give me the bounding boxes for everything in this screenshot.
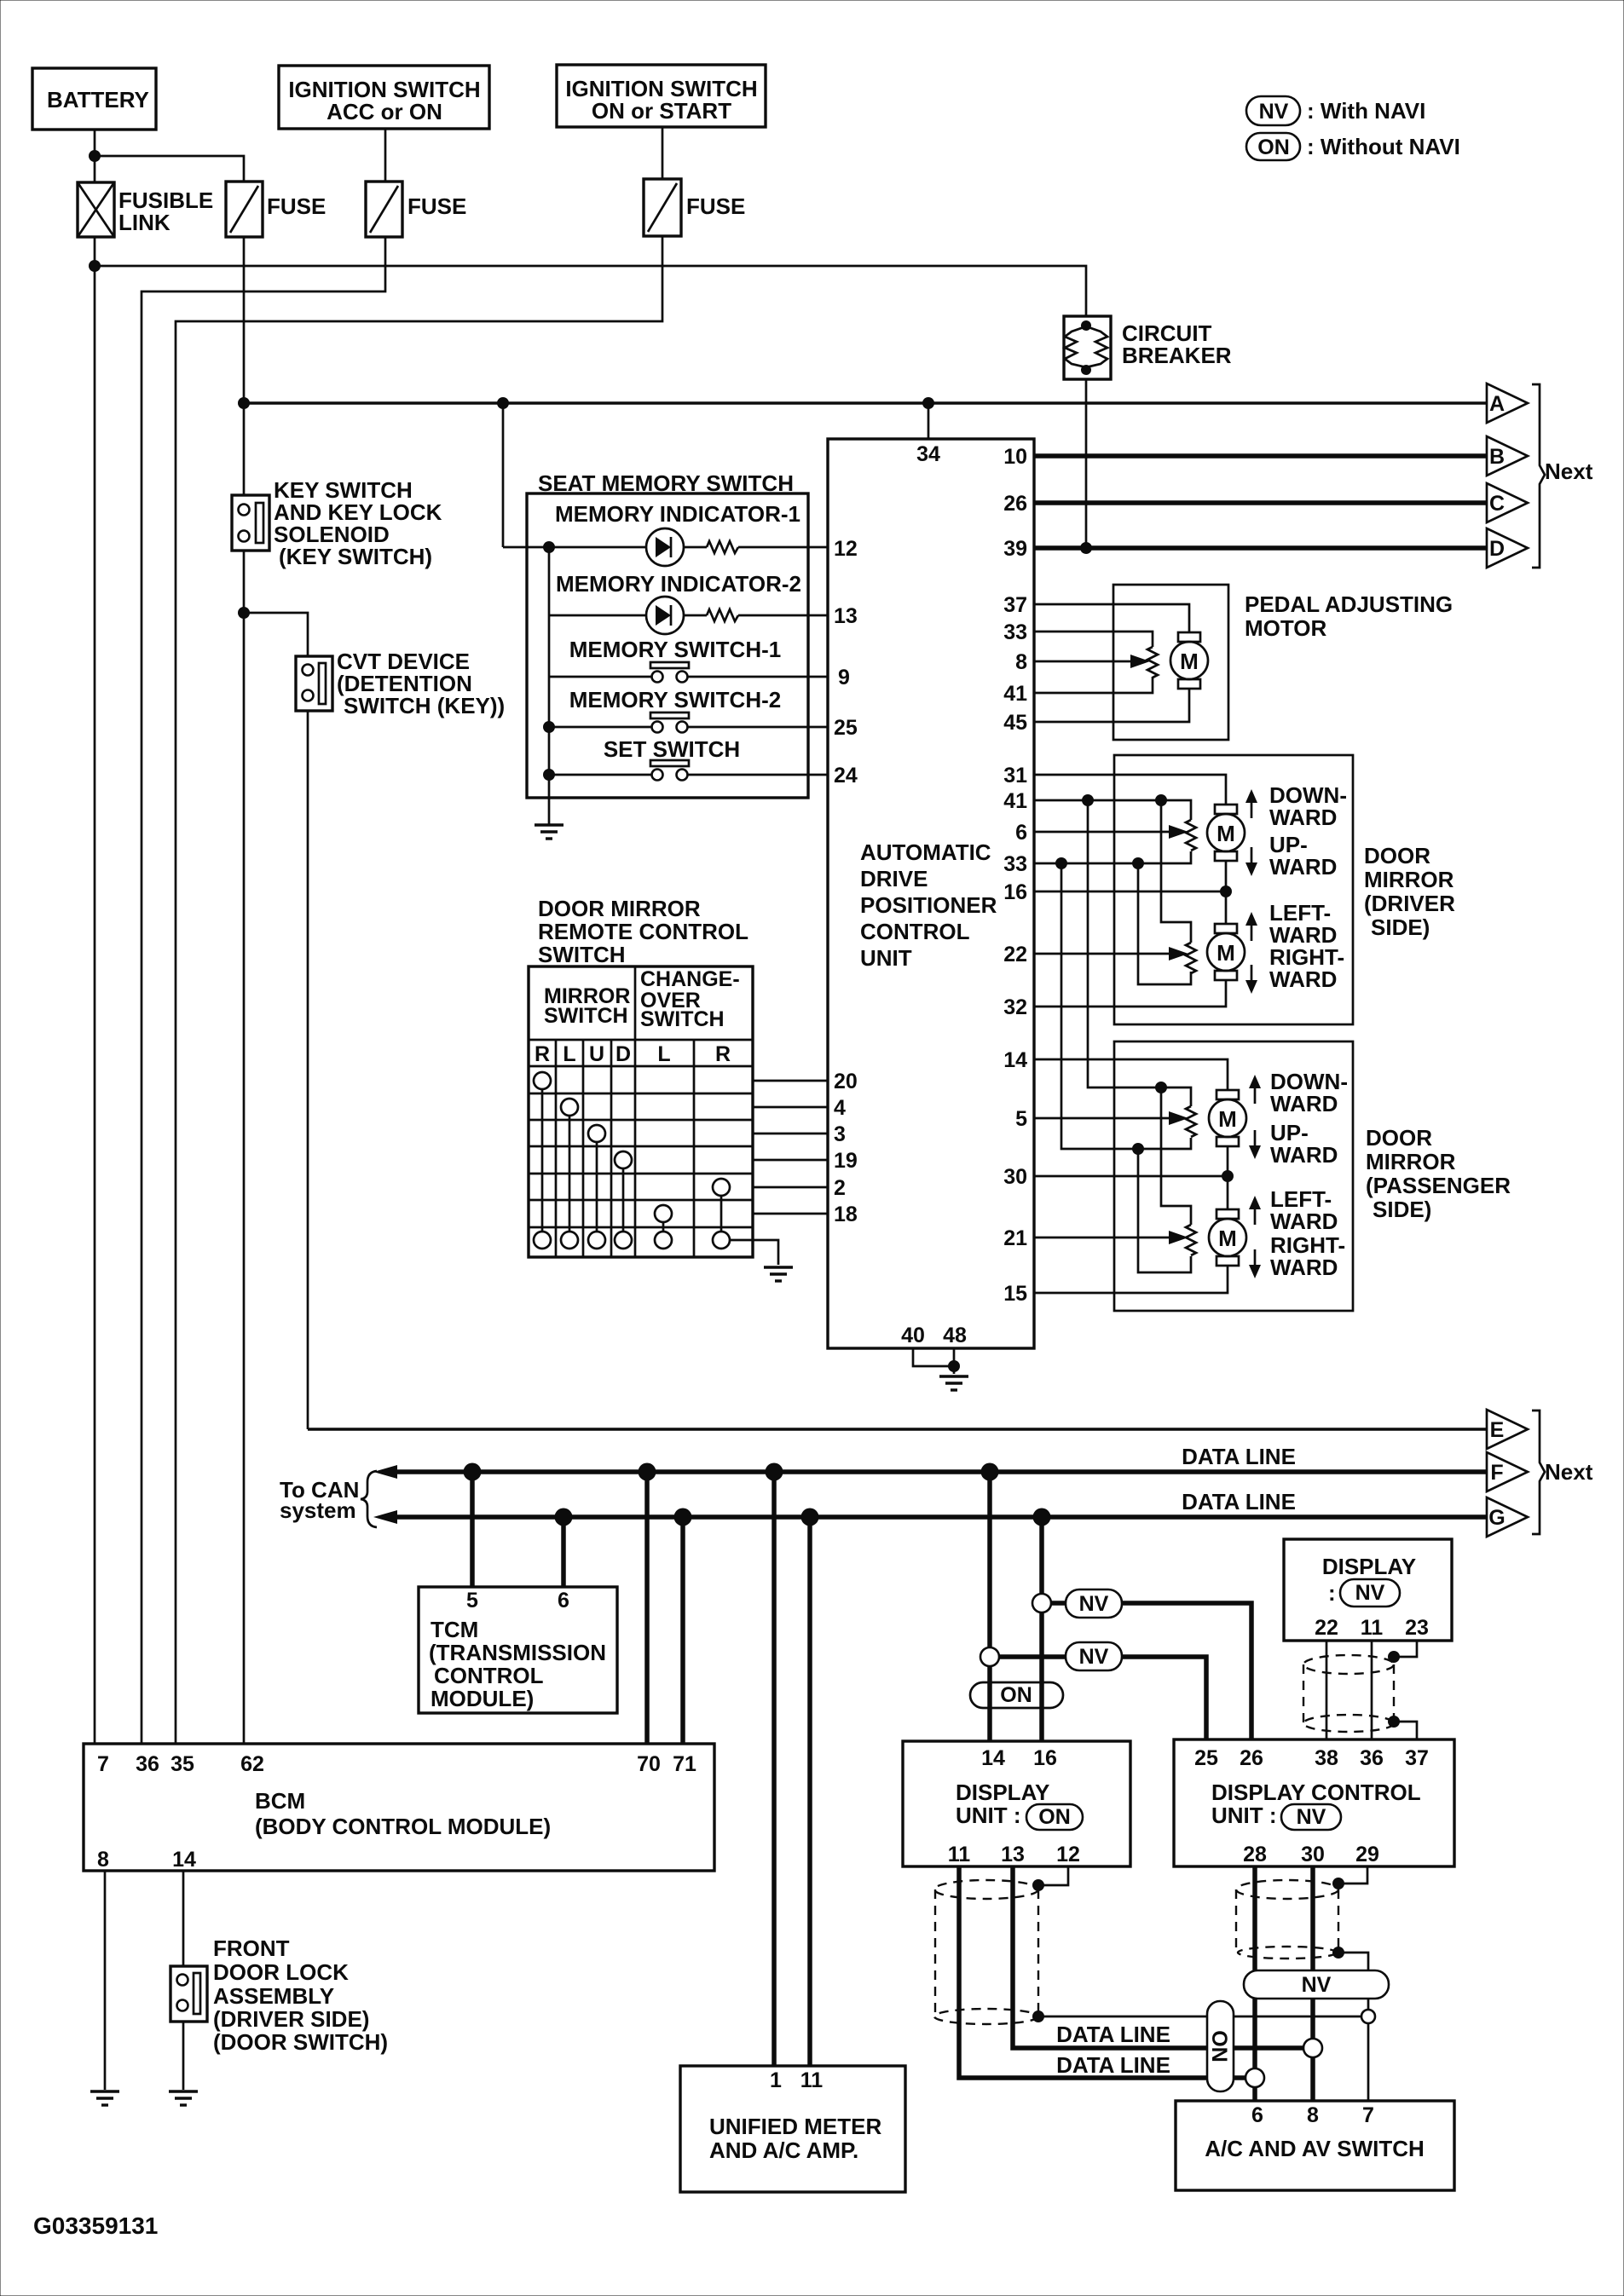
wire G to display unit pin 16 <box>1039 1517 1044 1741</box>
node G to meter 11 <box>801 1509 819 1526</box>
svg-text:UNIT :: UNIT : <box>1211 1803 1277 1828</box>
shield display cable <box>1303 1655 1394 1732</box>
node right shield bottom <box>1332 1947 1344 1959</box>
wire 41 rail to passenger sensor1 <box>1088 800 1191 1106</box>
wire pin 30 <box>1034 1175 1228 1178</box>
svg-text:M: M <box>1218 1226 1237 1251</box>
svg-text::: : <box>1328 1580 1336 1606</box>
ground control unit <box>939 1376 968 1390</box>
potentiometer passenger mirror vertical <box>1186 1106 1196 1137</box>
svg-text:M: M <box>1217 821 1235 846</box>
svg-text:WARD: WARD <box>1269 854 1337 880</box>
svg-text:L: L <box>657 1042 670 1066</box>
svg-text:L: L <box>563 1042 575 1066</box>
wire branch to CVT device <box>244 613 308 656</box>
node 33 branch b <box>1132 857 1144 869</box>
label upward passenger <box>1270 1120 1338 1168</box>
wire F to meter pin 1 <box>772 1472 777 2066</box>
wire BCM pin 8 to ground <box>104 1871 107 2090</box>
connector triangle G <box>1487 1497 1528 1537</box>
wire pin 4 stub <box>753 1106 828 1109</box>
contact R row1 <box>534 1072 551 1089</box>
bracket E-G Next <box>1532 1410 1593 1534</box>
connector triangle E <box>1487 1410 1528 1449</box>
svg-text:DOOR: DOOR <box>1364 843 1430 868</box>
contact U row3 <box>588 1125 605 1142</box>
wire col L <box>569 1116 571 1232</box>
svg-text:E: E <box>1490 1418 1505 1442</box>
wire pin 45 to pedal motor <box>1034 689 1189 722</box>
svg-text:MIRROR: MIRROR <box>1366 1149 1456 1174</box>
arrow driver downward <box>1245 789 1257 818</box>
svg-text:SIDE): SIDE) <box>1373 1197 1431 1222</box>
svg-text:5: 5 <box>466 1589 478 1612</box>
wire battery bus to circuit breaker <box>95 266 1086 316</box>
wire passenger motor2 to pin 15 <box>1034 1266 1228 1293</box>
svg-text:(PASSENGER: (PASSENGER <box>1366 1173 1511 1198</box>
svg-text:DRIVE: DRIVE <box>860 866 928 891</box>
node 30 junction <box>1222 1170 1234 1182</box>
svg-text:system: system <box>280 1497 356 1523</box>
wire G to BCM pin 71 <box>680 1517 685 1744</box>
svg-text:9: 9 <box>838 666 850 689</box>
node 41 branch b <box>1155 794 1167 806</box>
potentiometer driver mirror horizontal <box>1186 943 1196 973</box>
svg-text:ASSEMBLY: ASSEMBLY <box>213 1983 334 2009</box>
wire 33 rail to passenger sensor1 <box>1061 863 1191 1149</box>
wire col changeover L <box>662 1222 665 1232</box>
svg-text:36: 36 <box>136 1752 159 1776</box>
node ground join <box>948 1360 960 1372</box>
contact L row2 <box>561 1099 578 1116</box>
svg-text:SWITCH: SWITCH <box>538 942 626 967</box>
svg-text:(KEY SWITCH): (KEY SWITCH) <box>279 544 432 569</box>
svg-text:MOTOR: MOTOR <box>1245 615 1327 641</box>
svg-text:WARD: WARD <box>1269 966 1337 992</box>
wire B line pin 10 <box>1034 453 1487 459</box>
svg-text:15: 15 <box>1003 1282 1027 1306</box>
svg-text:SWITCH: SWITCH <box>544 1004 628 1028</box>
node left shield top <box>1032 1879 1044 1891</box>
svg-text:3: 3 <box>834 1122 846 1146</box>
svg-text:6: 6 <box>558 1589 569 1612</box>
fuse F3 <box>644 179 745 236</box>
wire 41 branch to passenger sensor2 <box>1161 1087 1191 1225</box>
ignition switch ACC or ON <box>279 66 489 129</box>
wire NV branch to DCU pin 25 <box>990 1657 1206 1739</box>
svg-text:M: M <box>1218 1106 1237 1132</box>
svg-text:BCM: BCM <box>255 1788 305 1814</box>
svg-text:MODULE): MODULE) <box>431 1686 534 1711</box>
svg-text:NV: NV <box>1297 1805 1326 1829</box>
set switch <box>549 760 828 781</box>
memory switch-2 <box>549 712 828 733</box>
svg-text:38: 38 <box>1315 1746 1338 1770</box>
label leftward driver <box>1269 900 1337 948</box>
svg-text:12: 12 <box>834 537 858 561</box>
node battery bus <box>89 260 101 272</box>
svg-text:NV: NV <box>1355 1581 1385 1605</box>
svg-text:UNIT :: UNIT : <box>956 1803 1021 1828</box>
motor passenger mirror horizontal <box>1209 1209 1246 1266</box>
label to CAN system <box>280 1471 377 1527</box>
svg-text:WARD: WARD <box>1269 805 1337 830</box>
svg-text:DOOR LOCK: DOOR LOCK <box>213 1959 349 1985</box>
wire G data line <box>392 1514 1487 1520</box>
contact D row4 <box>615 1151 632 1168</box>
wire display 22 to DCU 38 <box>1326 1641 1328 1739</box>
wire right shield to pin 7 <box>1338 1953 1368 2016</box>
tag NV AV lines <box>1244 1970 1389 1999</box>
svg-text:DISPLAY CONTROL: DISPLAY CONTROL <box>1211 1780 1421 1805</box>
svg-text:UNIT: UNIT <box>860 945 912 971</box>
wire G to meter pin 11 <box>807 1517 812 2066</box>
wire pin 6 wiper arrow <box>1034 825 1188 839</box>
wire 33 branch to passenger sensor2 <box>1138 1149 1191 1272</box>
svg-text:SWITCH: SWITCH <box>640 1007 725 1031</box>
svg-text:FUSE: FUSE <box>407 193 466 219</box>
wire ign ACC to fuse2 <box>384 129 387 182</box>
wire col U <box>596 1142 598 1232</box>
svg-text:8: 8 <box>1307 2103 1319 2127</box>
svg-text:23: 23 <box>1405 1616 1429 1640</box>
svg-text:28: 28 <box>1243 1843 1267 1866</box>
svg-text:: Without NAVI: : Without NAVI <box>1307 134 1460 159</box>
svg-text:DATA LINE: DATA LINE <box>1056 2052 1170 2078</box>
svg-text:SIDE): SIDE) <box>1371 914 1430 940</box>
wire DCU 30 to pin 8 <box>1310 1866 1315 2101</box>
unified meter and A/C amp box <box>680 2066 905 2192</box>
node F to TCM 5 <box>464 1463 482 1481</box>
wire E line <box>308 1428 1487 1430</box>
motor driver mirror vertical <box>1207 805 1245 861</box>
motor passenger mirror vertical <box>1209 1090 1246 1146</box>
svg-text:10: 10 <box>1003 445 1027 469</box>
svg-text:POSITIONER: POSITIONER <box>860 892 997 918</box>
svg-text:30: 30 <box>1301 1843 1325 1866</box>
wire driver motor2 to pin 32 <box>1034 980 1226 1007</box>
svg-text:ON: ON <box>1207 2030 1231 2062</box>
door mirror remote control switch title <box>538 896 748 967</box>
svg-text:32: 32 <box>1003 995 1027 1019</box>
svg-text:11: 11 <box>1361 1616 1384 1640</box>
svg-text:SWITCH (KEY)): SWITCH (KEY)) <box>344 693 505 718</box>
wire driver motor1 to 16 line <box>1225 861 1228 924</box>
wire A-line drop to pin 34 <box>928 403 930 439</box>
label upward driver <box>1269 832 1337 880</box>
svg-text:BATTERY: BATTERY <box>47 87 149 112</box>
connector triangle C <box>1487 483 1528 522</box>
battery <box>32 68 156 130</box>
svg-text:8: 8 <box>97 1848 109 1872</box>
pedal adjusting motor box <box>1113 585 1453 740</box>
svg-text:16: 16 <box>1033 1746 1057 1770</box>
svg-text:(DRIVER: (DRIVER <box>1364 891 1455 916</box>
svg-text:WARD: WARD <box>1270 1209 1338 1234</box>
arrow passenger rightward <box>1249 1249 1261 1278</box>
wire pin 22 wiper arrow <box>1034 947 1188 961</box>
shield DCU cable <box>1236 1880 1338 1959</box>
connector triangle F <box>1487 1452 1528 1491</box>
wire CVT device to E line <box>307 711 309 1429</box>
wire pin 2 stub <box>753 1186 828 1189</box>
wire col R <box>541 1089 544 1232</box>
svg-text:22: 22 <box>1003 943 1027 966</box>
wire DCU 29 to shield <box>1338 1866 1367 1884</box>
display (NV) box <box>1284 1539 1452 1641</box>
wire display 23 to shield <box>1394 1641 1417 1657</box>
svg-text:CHANGE-: CHANGE- <box>640 967 740 991</box>
svg-text:CONTROL: CONTROL <box>434 1663 544 1688</box>
svg-text:DOOR MIRROR: DOOR MIRROR <box>538 896 701 921</box>
LED memory indicator-2 <box>646 597 684 634</box>
wire seat rail <box>548 547 551 824</box>
svg-text:: With NAVI: : With NAVI <box>1307 98 1425 124</box>
node F to BCM 70 <box>639 1463 656 1481</box>
svg-text:M: M <box>1217 940 1235 966</box>
shield display unit cable <box>934 1880 1038 2024</box>
node rail row 24 <box>543 769 555 781</box>
svg-text:22: 22 <box>1315 1616 1338 1640</box>
connector triangle B <box>1487 436 1528 476</box>
wire fuse2 to BCM pin 36 <box>142 237 385 1744</box>
wire key switch to BCM pin 62 <box>243 551 246 1744</box>
BCM body control module <box>84 1744 714 1872</box>
column letters R L U D L R <box>535 1042 731 1066</box>
svg-text:ON or START: ON or START <box>592 98 731 124</box>
svg-text:ON: ON <box>1038 1805 1071 1829</box>
svg-text:45: 45 <box>1003 711 1027 735</box>
wire pin 33 to driver sensor1 <box>1034 851 1191 863</box>
legend ON without NAVI <box>1246 133 1460 160</box>
wire G to TCM pin 6 <box>561 1517 566 1587</box>
key switch and key lock solenoid <box>232 477 442 569</box>
svg-text:(BODY CONTROL MODULE): (BODY CONTROL MODULE) <box>255 1814 551 1839</box>
wire pin 33 to pedal sensor <box>1034 632 1153 647</box>
wire C line pin 26 <box>1034 500 1487 505</box>
svg-text:G: G <box>1488 1506 1505 1530</box>
svg-text:(TRANSMISSION: (TRANSMISSION <box>429 1640 606 1665</box>
memory switch-1 <box>549 662 828 683</box>
potentiometer pedal position <box>1147 647 1158 678</box>
connector joint on 16 wire <box>1032 1594 1051 1612</box>
wire pin 3 stub <box>753 1133 828 1135</box>
circuit breaker <box>1064 316 1232 379</box>
svg-text:37: 37 <box>1003 593 1027 617</box>
arrow passenger upward <box>1249 1130 1261 1159</box>
node 33 branch a <box>1055 857 1067 869</box>
wire display unit 11 data line <box>959 1866 1255 2078</box>
svg-text:24: 24 <box>834 764 858 787</box>
svg-text:14: 14 <box>172 1848 196 1872</box>
connector joint data line 1 <box>1303 2039 1322 2057</box>
door mirror passenger side box <box>1114 1041 1511 1311</box>
node A-line to seat memory <box>497 397 509 409</box>
wire F to TCM pin 5 <box>470 1472 475 1587</box>
svg-text:6: 6 <box>1251 2103 1263 2127</box>
svg-text:1: 1 <box>770 2068 782 2092</box>
wire fuse1 to key switch <box>243 237 246 495</box>
fusible link <box>78 182 213 237</box>
wire row 13 <box>549 614 828 617</box>
svg-text:6: 6 <box>1015 821 1027 845</box>
node G to BCM 71 <box>674 1509 692 1526</box>
svg-text:62: 62 <box>240 1752 264 1776</box>
arrow CAN F <box>373 1465 397 1479</box>
svg-text:DATA LINE: DATA LINE <box>1056 2022 1170 2047</box>
svg-text:4: 4 <box>834 1096 846 1120</box>
wire pin 48 to ground <box>953 1348 956 1374</box>
node A-line to pin 34 <box>922 397 934 409</box>
svg-text:MIRROR: MIRROR <box>1364 867 1454 892</box>
svg-text:DISPLAY: DISPLAY <box>956 1780 1049 1805</box>
svg-text:D: D <box>1489 537 1505 561</box>
svg-text:5: 5 <box>1015 1107 1027 1131</box>
wire shield to DCU 37 <box>1394 1722 1417 1739</box>
node A-line tap on key switch wire <box>238 397 250 409</box>
wire 41b to driver sensor2 <box>1161 800 1191 943</box>
svg-text:37: 37 <box>1405 1746 1429 1770</box>
svg-text:33: 33 <box>1003 852 1027 876</box>
potentiometer passenger mirror horizontal <box>1186 1225 1196 1255</box>
arrow passenger leftward <box>1249 1196 1261 1225</box>
wire pin 5 wiper arrow <box>1034 1111 1188 1125</box>
svg-text:FRONT: FRONT <box>213 1935 290 1961</box>
ground seat memory switch <box>535 825 563 839</box>
wire F to BCM pin 70 <box>644 1472 650 1744</box>
svg-text:14: 14 <box>1003 1048 1027 1072</box>
svg-text:NV: NV <box>1079 1592 1109 1616</box>
node breaker joins D line <box>1080 542 1092 554</box>
display unit (ON) box <box>903 1741 1130 1866</box>
mirror switch table frame <box>529 966 753 1257</box>
wire BCM pin 14 to door switch <box>182 1871 185 1966</box>
wire display 11 to DCU 36 <box>1371 1641 1373 1739</box>
svg-text:DATA LINE: DATA LINE <box>1182 1489 1296 1514</box>
svg-text:B: B <box>1489 445 1505 469</box>
contact changeover L row6 <box>655 1205 672 1222</box>
svg-text:U: U <box>589 1042 604 1066</box>
svg-text:30: 30 <box>1003 1165 1027 1189</box>
label downward passenger <box>1270 1069 1348 1116</box>
svg-text:A/C AND AV SWITCH: A/C AND AV SWITCH <box>1205 2136 1425 2161</box>
ground BCM pin 8 <box>90 2091 119 2105</box>
wire col changeover R <box>720 1196 723 1232</box>
node F to display 14 <box>981 1463 999 1481</box>
svg-text:F: F <box>1490 1461 1503 1485</box>
contacts bottom row <box>534 1232 730 1249</box>
svg-text:WARD: WARD <box>1270 1091 1338 1116</box>
wire NV branch to DCU pin 26 <box>1042 1603 1251 1739</box>
resistor row 13 <box>707 609 738 621</box>
svg-text:ACC or ON: ACC or ON <box>327 99 442 124</box>
svg-text:DISPLAY: DISPLAY <box>1322 1554 1416 1579</box>
svg-text:MEMORY SWITCH-2: MEMORY SWITCH-2 <box>569 687 781 712</box>
change-over switch header <box>640 967 740 1031</box>
wire pin 40 to ground <box>913 1348 954 1366</box>
wire A line <box>244 401 1487 404</box>
wire D line pin 39 <box>1034 545 1487 551</box>
svg-text:70: 70 <box>637 1752 661 1776</box>
A/C and AV switch box <box>1176 2101 1454 2190</box>
wire F to display unit pin 14 <box>987 1472 992 1741</box>
svg-text:A: A <box>1489 392 1505 416</box>
motor driver mirror horizontal <box>1207 924 1245 980</box>
svg-text:Next: Next <box>1545 459 1593 484</box>
wire shields to pin 7 <box>1038 2016 1368 2018</box>
svg-text:AUTOMATIC: AUTOMATIC <box>860 839 991 865</box>
svg-text:ON: ON <box>1000 1683 1032 1707</box>
svg-text:NV: NV <box>1259 100 1289 124</box>
svg-text:39: 39 <box>1003 537 1027 561</box>
svg-text:35: 35 <box>170 1752 194 1776</box>
svg-text:FUSE: FUSE <box>267 193 326 219</box>
svg-text:26: 26 <box>1003 492 1027 516</box>
svg-text:14: 14 <box>981 1746 1005 1770</box>
tag ON display unit feed <box>970 1682 1063 1708</box>
svg-text:SET SWITCH: SET SWITCH <box>604 736 740 762</box>
wire display unit 12 to shield <box>1038 1866 1068 1885</box>
svg-text:12: 12 <box>1056 1843 1080 1866</box>
wire table to ground <box>731 1240 778 1265</box>
svg-text:G03359131: G03359131 <box>33 2212 158 2239</box>
wire pin 41 to pedal sensor <box>1034 677 1153 693</box>
wire pin 16 <box>1034 891 1226 893</box>
wire door switch to ground <box>182 2022 185 2090</box>
svg-text:41: 41 <box>1003 789 1027 813</box>
wire pin 41 to driver sensor1 <box>1034 800 1191 820</box>
svg-text:UNIFIED METER: UNIFIED METER <box>709 2114 881 2139</box>
arrow driver upward <box>1245 847 1257 876</box>
svg-text:D: D <box>616 1042 631 1066</box>
svg-text:WARD: WARD <box>1270 1142 1338 1168</box>
svg-text:7: 7 <box>1362 2103 1374 2127</box>
svg-text:19: 19 <box>834 1149 858 1173</box>
arrow driver leftward <box>1245 912 1257 941</box>
svg-text:NV: NV <box>1302 1973 1332 1997</box>
svg-text:16: 16 <box>1003 880 1027 904</box>
contact changeover R row5 <box>713 1179 730 1196</box>
svg-text:11: 11 <box>948 1843 971 1866</box>
svg-text:Next: Next <box>1545 1459 1593 1485</box>
legend NV with NAVI <box>1246 96 1425 125</box>
ground door switch <box>169 2091 198 2105</box>
TCM box <box>419 1587 617 1713</box>
tag ON AV lines <box>1207 2001 1234 2091</box>
svg-text:DOOR: DOOR <box>1366 1125 1432 1151</box>
svg-text:(DRIVER SIDE): (DRIVER SIDE) <box>213 2006 369 2032</box>
motor pedal adjusting <box>1170 632 1208 689</box>
svg-text:41: 41 <box>1003 682 1027 706</box>
svg-text:36: 36 <box>1360 1746 1384 1770</box>
automatic drive positioner control unit U1 <box>828 439 1034 1348</box>
svg-text:40: 40 <box>901 1324 925 1347</box>
wire pin 31 to driver mirror motor <box>1034 775 1226 805</box>
fuse F1 <box>226 182 326 237</box>
node passenger sensor junction b <box>1132 1143 1144 1155</box>
connector joint pin 7 line <box>1361 2010 1375 2023</box>
svg-text:AND A/C AMP.: AND A/C AMP. <box>709 2137 858 2163</box>
fuse F2 <box>366 182 466 237</box>
svg-text:REMOTE CONTROL: REMOTE CONTROL <box>538 919 748 944</box>
connector joint on 14 wire <box>980 1647 999 1666</box>
label rightward passenger <box>1270 1232 1345 1280</box>
svg-text:TCM: TCM <box>431 1617 478 1642</box>
svg-text:33: 33 <box>1003 620 1027 644</box>
wire battery down to BCM pin 7 <box>94 237 96 1744</box>
svg-text:31: 31 <box>1003 764 1027 787</box>
arrow CAN G <box>373 1510 397 1524</box>
